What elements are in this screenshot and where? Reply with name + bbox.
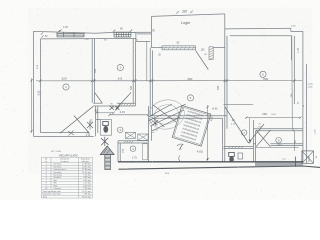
svg-text:7.26 mp: 7.26 mp: [83, 175, 91, 177]
room6 bottom wall: [253, 128, 303, 130]
dark X marks near door: [110, 106, 120, 111]
wall room5 bottom / kitchen top: [150, 115, 227, 117]
door swing diagonal balcony B: [74, 116, 90, 134]
bottom wall dark merge right: [255, 162, 303, 167]
door swing room2: [116, 93, 132, 110]
svg-text:1.75: 1.75: [132, 157, 137, 160]
signature strokes: [149, 104, 187, 131]
bathroom2 top wall: [224, 145, 254, 147]
loggia right wall: [224, 14, 226, 29]
legend table grid: [42, 157, 93, 198]
right inner wall lower: [291, 36, 294, 129]
interior chain dimension line: [36, 80, 302, 82]
corridor bottom wall: [271, 143, 303, 145]
svg-text:11.36 mp: 11.36 mp: [82, 172, 91, 174]
loggia left wall: [150, 16, 152, 47]
wall chunk right of room2: [135, 32, 137, 41]
svg-text:1.50: 1.50: [123, 148, 125, 153]
shaft box bottom right: [302, 151, 314, 163]
door swing room1: [95, 93, 102, 103]
svg-text:4,60: 4,60: [196, 149, 203, 154]
svg-text:Camera de zi: Camera de zi: [54, 168, 67, 171]
svg-text:320: 320: [61, 77, 66, 81]
svg-text:330: 330: [187, 77, 192, 81]
wall right inner: [293, 36, 295, 104]
svg-text:Hol: Hol: [54, 180, 58, 182]
svg-text:Dormitor: Dormitor: [54, 171, 62, 174]
bottom wall outer line: [119, 166, 320, 169]
svg-text:2.33: 2.33: [120, 110, 126, 114]
svg-text:345: 345: [130, 85, 133, 90]
door swing diagonal balcony A: [60, 106, 93, 133]
bathroom walls: [118, 140, 148, 142]
window W2 top wall: [114, 31, 131, 33]
vestibule door swing V: [225, 107, 249, 143]
shaft hatch box 2: [138, 134, 148, 140]
svg-text:Total suprafata utila: Total suprafata utila: [43, 190, 62, 193]
window W1 top wall: [56, 32, 58, 37]
room number 5: [187, 95, 193, 101]
wall top-left inner: [41, 38, 136, 40]
svg-text:Suprafata: Suprafata: [81, 157, 91, 160]
svg-text:+2.55: +2.55: [315, 129, 317, 135]
bathroom2 toilet: [229, 152, 235, 156]
balcony step wall: [95, 106, 97, 136]
svg-text:Nr.: Nr.: [45, 157, 48, 160]
svg-text:→ 1:100: → 1:100: [150, 130, 159, 132]
wall right outer second: [305, 64, 307, 164]
svg-text:+0.05: +0.05: [307, 84, 313, 86]
hatch rooms bottom wall: [118, 103, 120, 106]
loggia door swing: [196, 50, 209, 69]
svg-text:57.35 mp: 57.35 mp: [82, 191, 92, 193]
svg-text:330: 330: [263, 77, 268, 81]
svg-text:WC: WC: [54, 183, 58, 185]
scribble X mark 2: [68, 131, 74, 136]
kitchen brace mark: [179, 156, 180, 162]
wall room2 right: [132, 39, 134, 103]
wall left outer: [33, 31, 35, 136]
svg-text:2.88 mp: 2.88 mp: [83, 194, 91, 196]
bottom wall tick 1: [295, 157, 297, 167]
svg-text:3.05 mp: 3.05 mp: [83, 180, 91, 182]
svg-text:230: 230: [262, 112, 267, 116]
wall room5-room6: [224, 29, 226, 162]
rectangular stamp: [172, 105, 211, 146]
vestibule top line: [224, 103, 254, 105]
hall-kitchen wall: [148, 106, 150, 141]
scribble X mark 1: [87, 121, 93, 130]
loggia window band: [162, 45, 196, 47]
north arrow star: [101, 137, 109, 146]
svg-text:+0.00: +0.00: [212, 109, 219, 111]
bathroom door hatch: [124, 141, 126, 143]
kitchen door swing: [153, 118, 165, 128]
svg-text:utila mp: utila mp: [82, 160, 90, 163]
svg-text:Logie: Logie: [181, 21, 190, 25]
wall right outer: [302, 31, 304, 163]
room number 4: [130, 146, 136, 152]
door hinge mark: [249, 140, 252, 144]
loggia door jamb hatched: [209, 47, 213, 60]
room number 3: [117, 127, 123, 133]
wall segment right of window2: [131, 31, 135, 33]
svg-text:scm: scm: [282, 159, 286, 161]
bathroom2 sink: [238, 153, 243, 159]
legend table text: [43, 157, 92, 198]
svg-text:345: 345: [94, 68, 97, 73]
balcony bottom wall inner: [41, 132, 89, 134]
north arrow head: [100, 146, 114, 155]
svg-text:1.25: 1.25: [63, 26, 68, 29]
room number 1: [63, 84, 69, 90]
room6 top inner wall: [230, 35, 292, 37]
wall top-left outer: [34, 31, 152, 33]
wall room5 left: [149, 48, 151, 116]
svg-text:Denumire: Denumire: [60, 157, 70, 160]
corridor wall vertical: [252, 120, 254, 162]
svg-text:-0.05: -0.05: [308, 87, 314, 89]
svg-text:incapere: incapere: [61, 160, 70, 163]
svg-text:13.92 mp: 13.92 mp: [82, 166, 92, 168]
bottom wall tick 2: [308, 157, 310, 163]
svg-text:Vestibul: Vestibul: [54, 176, 62, 179]
kitchen right wall: [222, 118, 224, 161]
wall room1-room2: [91, 39, 93, 103]
drawing area tint: [28, 8, 312, 174]
WC box: [101, 120, 112, 136]
bottom wall inner line: [118, 161, 303, 163]
wall band left of loggia: [137, 33, 151, 35]
vestibule jamb line: [248, 118, 250, 144]
wall left inner: [40, 39, 42, 133]
svg-text:1.30 mp: 1.30 mp: [83, 188, 91, 190]
bathtub: [143, 144, 148, 160]
vertical dim line 480: [207, 105, 209, 161]
room number 2: [117, 64, 123, 70]
svg-text:RECAPITULATIE: RECAPITULATIE: [59, 154, 78, 157]
svg-text:Bucatarie: Bucatarie: [54, 174, 64, 177]
svg-text:Camara: Camara: [54, 187, 62, 190]
svg-text:2.10: 2.10: [86, 135, 91, 137]
svg-text:60.23 mp: 60.23 mp: [82, 196, 92, 198]
svg-text:5.55: 5.55: [38, 90, 41, 95]
wall top-right outer: [225, 27, 291, 30]
svg-text:Dormitor: Dormitor: [54, 165, 62, 168]
room number 6: [260, 71, 266, 77]
svg-text:1.26 mp: 1.26 mp: [83, 183, 91, 185]
balcony bottom wall outer: [34, 135, 94, 137]
left outside dim line: [31, 78, 33, 133]
signature below stamp: [177, 144, 183, 150]
svg-text:crt.: crt.: [45, 160, 48, 163]
north arrow shaft: [105, 155, 111, 170]
svg-text:Dormitor: Dormitor: [54, 163, 62, 166]
svg-text:4.80 mp: 4.80 mp: [83, 177, 91, 179]
corridor door X: [256, 130, 271, 147]
wall rooms bottom: [93, 102, 102, 104]
shaft hatch box 1: [126, 132, 136, 138]
svg-text:Suprafata utila logie: Suprafata utila logie: [43, 193, 62, 196]
loggia top wall: [151, 14, 224, 17]
room number 7: [241, 130, 247, 136]
svg-text:17.80 mp: 17.80 mp: [82, 164, 92, 166]
svg-text:320: 320: [182, 9, 188, 13]
WC toilet dark: [103, 122, 109, 126]
room number 8: [276, 138, 282, 144]
svg-text:Total: Total: [43, 195, 48, 198]
svg-text:4.80: 4.80: [211, 116, 214, 121]
svg-text:1.70: 1.70: [297, 47, 300, 52]
svg-text:SC. 1:100: SC. 1:100: [51, 151, 62, 153]
svg-text:17.80 mp: 17.80 mp: [82, 169, 92, 171]
svg-text:345: 345: [217, 85, 220, 90]
svg-text:213: 213: [277, 143, 282, 147]
kitchen door hatch: [149, 115, 153, 117]
round stamp: [146, 97, 187, 133]
